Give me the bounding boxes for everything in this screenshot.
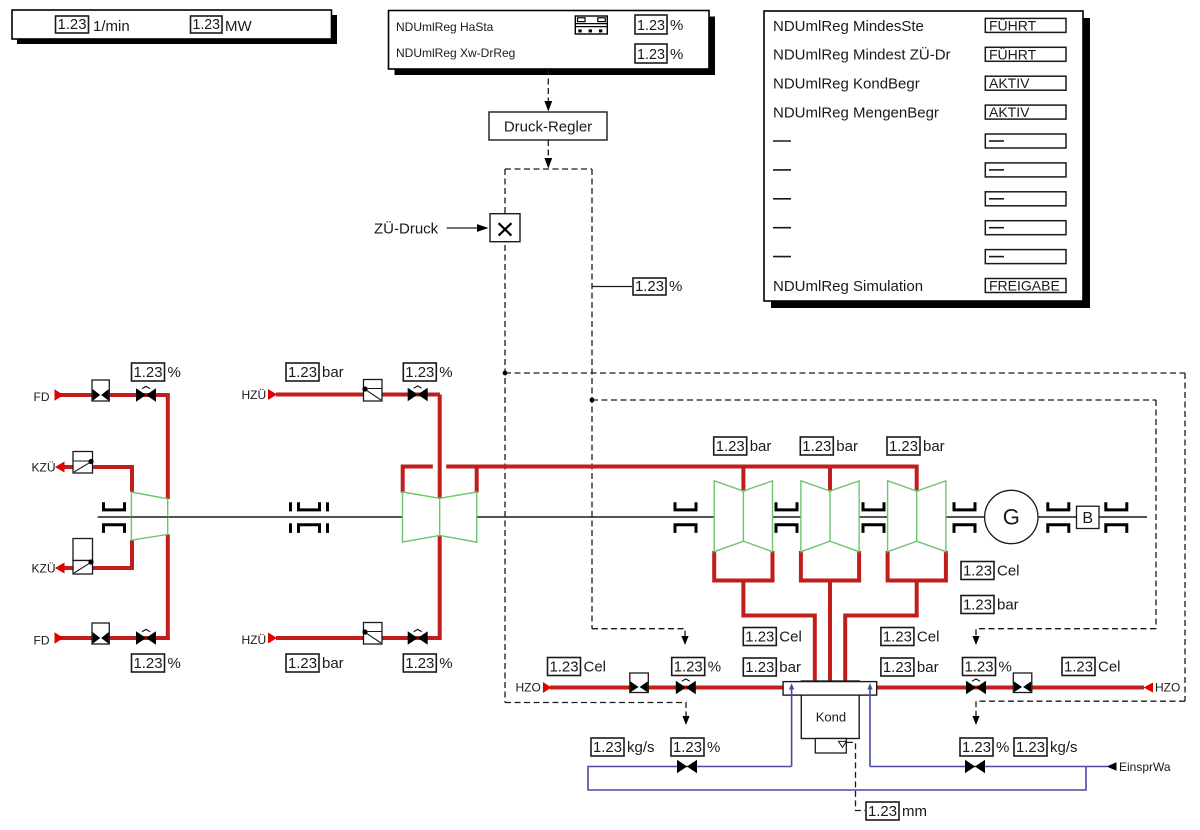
- svg-text:MW: MW: [225, 18, 252, 35]
- svg-text:AKTIV: AKTIV: [989, 104, 1030, 120]
- LP2 exhaust box: [801, 551, 859, 581]
- svg-text:1.23: 1.23: [1016, 739, 1045, 756]
- junction dot x592 y400: [590, 398, 595, 403]
- LP3 drain to condenser: [845, 581, 917, 682]
- bearing 3: [675, 502, 696, 533]
- svg-text:1.23: 1.23: [550, 659, 579, 676]
- svg-text:Cel: Cel: [584, 659, 607, 676]
- status panel: [764, 11, 1083, 301]
- value gen bar: [961, 596, 1019, 614]
- status row 7: [773, 192, 1066, 206]
- svg-text:1.23: 1.23: [635, 278, 664, 295]
- shaft line segments: [98, 516, 1147, 518]
- svg-text:AKTIV: AKTIV: [989, 75, 1030, 91]
- status row 6: [773, 163, 1066, 177]
- value HZU top bar: [286, 363, 344, 381]
- HZO arrow right: [1144, 683, 1154, 693]
- bearing 1: [104, 502, 125, 533]
- LP2 drain to condenser: [828, 581, 832, 682]
- svg-text:Kond: Kond: [816, 710, 846, 725]
- HZO boxed valve left: [630, 673, 649, 693]
- svg-text:FÜHRT: FÜHRT: [989, 45, 1037, 62]
- svg-text:1.23: 1.23: [883, 629, 912, 646]
- svg-text:KZÜ: KZÜ: [32, 461, 56, 475]
- inner dashed right vertical x=1156: [1155, 400, 1157, 629]
- value spray left kg/s: [591, 738, 655, 756]
- svg-text:NDUmlReg MengenBegr: NDUmlReg MengenBegr: [773, 105, 939, 122]
- svg-text:1.23: 1.23: [745, 659, 774, 676]
- HP turbine: [131, 492, 167, 540]
- KZU arrow top: [55, 462, 65, 473]
- svg-text:kg/s: kg/s: [627, 739, 655, 756]
- value HaSta %: [635, 15, 683, 34]
- HZU control valve bottom: [408, 629, 427, 644]
- svg-text:%: %: [996, 739, 1009, 756]
- FD arrow bottom: [55, 632, 64, 643]
- value HZO left %: [672, 658, 721, 676]
- spray arrow left: [789, 683, 794, 689]
- HZO line left: [550, 686, 784, 690]
- top-left status box: [12, 10, 332, 39]
- svg-text:1.23: 1.23: [58, 16, 87, 33]
- svg-text:Cel: Cel: [779, 629, 802, 646]
- svg-text:1.23: 1.23: [868, 803, 897, 820]
- crossover header main: [446, 467, 917, 492]
- svg-text:Cel: Cel: [1098, 659, 1121, 676]
- value MW: [191, 16, 223, 33]
- HZO line right: [876, 686, 1144, 690]
- signal: controller to Druck-Regler: [544, 69, 552, 112]
- svg-text:1.23: 1.23: [593, 739, 622, 756]
- svg-text:1.23: 1.23: [134, 655, 163, 672]
- svg-text:NDUmlReg Mindest ZÜ-Dr: NDUmlReg Mindest ZÜ-Dr: [773, 46, 951, 64]
- dashed bus right vertical x=592: [591, 169, 593, 629]
- dashed bus top edge: [505, 168, 592, 170]
- coupling tick left: [289, 502, 292, 533]
- svg-text:1.23: 1.23: [883, 659, 912, 676]
- svg-text:bar: bar: [923, 438, 945, 455]
- bearing 8: [1106, 502, 1127, 533]
- svg-text:Cel: Cel: [997, 563, 1020, 580]
- condenser body: [801, 681, 859, 739]
- tap to % label: [592, 286, 632, 288]
- HP shaft through: [131, 516, 167, 518]
- svg-text:1.23: 1.23: [802, 438, 831, 455]
- svg-text:1.23: 1.23: [637, 46, 665, 63]
- HZO bypass valve right: [966, 679, 985, 694]
- HZO bypass valve left: [676, 679, 695, 694]
- svg-text:HZÜ: HZÜ: [242, 388, 267, 402]
- svg-text:1.23: 1.23: [405, 364, 434, 381]
- value LP2 bar: [800, 437, 858, 455]
- KZU flap valve bottom: [73, 539, 94, 575]
- junction dot x505 y373: [503, 371, 508, 376]
- value tap %: [633, 278, 682, 295]
- value HZO far right Cel: [1062, 658, 1121, 676]
- HZU flap valve bottom: [362, 623, 382, 645]
- svg-text:FD: FD: [34, 634, 50, 648]
- value HZO right %: [963, 658, 1012, 676]
- value mm: [866, 802, 927, 820]
- svg-text:%: %: [708, 659, 721, 676]
- svg-text:1.23: 1.23: [962, 739, 991, 756]
- KZU flap valve top: [73, 452, 94, 474]
- spray valve right: [965, 760, 984, 772]
- LP1 turbine: [714, 481, 772, 552]
- crossover header left with IP drop: [403, 467, 433, 493]
- status panel shadow: [771, 18, 1090, 308]
- svg-text:bar: bar: [322, 655, 344, 672]
- HZU arrow top: [268, 389, 277, 400]
- HZU reheat line top: [276, 393, 440, 397]
- value spray right %: [960, 738, 1009, 756]
- status row 9: [773, 250, 1066, 264]
- EinsprWa arrow: [1107, 762, 1117, 770]
- svg-text:HZÜ: HZÜ: [242, 633, 267, 647]
- HZU arrow bottom: [268, 633, 277, 644]
- value LP3 bar: [887, 437, 945, 455]
- svg-text:NDUmlReg MindesSte: NDUmlReg MindesSte: [773, 18, 924, 35]
- LP3 exhaust box: [888, 551, 946, 581]
- exciter B box: [1077, 506, 1100, 528]
- main left vertical pipe upper: [166, 395, 170, 499]
- svg-text:1.23: 1.23: [288, 655, 317, 672]
- status row 3: [773, 75, 1066, 92]
- signal: Druck-Regler down: [544, 140, 552, 169]
- KZU extraction line top: [64, 467, 132, 492]
- svg-text:%: %: [670, 17, 683, 34]
- svg-text:NDUmlReg Xw-DrReg: NDUmlReg Xw-DrReg: [396, 46, 515, 60]
- inner dashed bottom left arrow: [592, 629, 689, 645]
- LP3 turbine: [888, 481, 946, 552]
- IP right drop: [475, 467, 479, 493]
- IP inlet vertical pipe: [438, 395, 442, 499]
- inner dashed bottom right arrow: [972, 629, 1156, 645]
- svg-text:%: %: [168, 655, 181, 672]
- FD stop valve bottom (boxed): [92, 623, 109, 644]
- FD control valve top: [136, 386, 155, 401]
- status row 5: [773, 134, 1066, 148]
- status row 4: [773, 104, 1066, 121]
- value gen Cel: [961, 562, 1020, 580]
- value HZU bottom %: [403, 654, 452, 672]
- svg-text:ZÜ-Druck: ZÜ-Druck: [374, 220, 439, 238]
- LP1 drain to condenser: [743, 581, 814, 682]
- svg-text:bar: bar: [322, 364, 344, 381]
- svg-text:NDUmlReg Simulation: NDUmlReg Simulation: [773, 278, 923, 295]
- svg-text:bar: bar: [997, 597, 1019, 614]
- svg-text:%: %: [168, 364, 181, 381]
- svg-text:HZO: HZO: [516, 681, 541, 695]
- svg-text:%: %: [999, 659, 1012, 676]
- status row 1: [773, 16, 1066, 34]
- status row 10: [773, 278, 1066, 295]
- value cond right Cel: [881, 628, 940, 646]
- condenser flange: [783, 682, 877, 696]
- faceplate icon: [575, 16, 607, 34]
- svg-text:bar: bar: [750, 438, 772, 455]
- status row 8: [773, 221, 1066, 235]
- spray line right riser: [869, 686, 871, 767]
- svg-text:kg/s: kg/s: [1050, 739, 1078, 756]
- spray manifold right: [870, 766, 1107, 768]
- svg-text:1.23: 1.23: [637, 17, 665, 34]
- value Xw-DrReg %: [635, 44, 683, 63]
- outer dashed right vertical x=1185: [1184, 373, 1186, 701]
- main left vertical pipe lower: [166, 534, 170, 640]
- svg-text:1.23: 1.23: [288, 364, 317, 381]
- svg-text:bar: bar: [917, 659, 939, 676]
- status row 2: [773, 45, 1066, 63]
- svg-text:G: G: [1003, 505, 1020, 530]
- svg-text:bar: bar: [836, 438, 858, 455]
- svg-text:B: B: [1082, 510, 1093, 527]
- FD supply line bottom: [60, 636, 170, 640]
- HZU flap valve top: [362, 380, 382, 402]
- Druck-Regler box: [489, 112, 607, 140]
- spray line left riser: [791, 686, 793, 767]
- svg-text:%: %: [439, 655, 452, 672]
- svg-text:NDUmlReg HaSta: NDUmlReg HaSta: [396, 20, 494, 34]
- svg-text:1.23: 1.23: [963, 597, 992, 614]
- value FD bottom %: [132, 654, 181, 672]
- svg-text:%: %: [670, 46, 683, 63]
- svg-text:1.23: 1.23: [716, 438, 745, 455]
- coupling tick right: [326, 502, 329, 533]
- value cond left bar: [743, 658, 801, 676]
- value 1/min: [56, 16, 89, 33]
- spray manifold left: [588, 767, 1086, 791]
- svg-text:1.23: 1.23: [134, 364, 163, 381]
- dashed line y=373 to right edge: [505, 372, 1185, 374]
- svg-text:KZÜ: KZÜ: [32, 562, 56, 576]
- generator G: [985, 490, 1038, 543]
- svg-text:HZO: HZO: [1155, 681, 1180, 695]
- value HZU top %: [403, 363, 452, 381]
- spray valve left: [677, 760, 696, 772]
- value FD top %: [132, 363, 181, 381]
- LP2 turbine: [801, 481, 859, 552]
- FD arrow top: [55, 389, 64, 400]
- svg-text:NDUmlReg KondBegr: NDUmlReg KondBegr: [773, 76, 920, 93]
- condenser hotwell: [815, 739, 846, 754]
- value HZU bottom bar: [286, 654, 344, 672]
- svg-text:1.23: 1.23: [963, 563, 992, 580]
- HZO arrow left: [543, 682, 552, 693]
- svg-text:Cel: Cel: [917, 629, 940, 646]
- value cond left Cel: [743, 628, 802, 646]
- svg-text:Druck-Regler: Druck-Regler: [504, 119, 592, 136]
- svg-text:FD: FD: [34, 390, 50, 404]
- HZU control valve top: [408, 386, 427, 401]
- LP1 inlet drop: [741, 467, 745, 492]
- IP outlet vertical pipe: [438, 535, 442, 640]
- svg-text:1.23: 1.23: [889, 438, 918, 455]
- bearing 6: [954, 502, 975, 533]
- IP turbine: [403, 492, 477, 542]
- spray arrow right: [867, 683, 872, 689]
- LP2 inlet drop: [828, 467, 832, 492]
- value spray left %: [671, 738, 720, 756]
- arrow ZU-Druck into multiplier: [447, 224, 489, 232]
- HZO boxed valve right: [1013, 673, 1032, 693]
- outer dashed bottom right segment: [972, 701, 1185, 725]
- svg-text:1.23: 1.23: [405, 655, 434, 672]
- svg-text:1.23: 1.23: [745, 629, 774, 646]
- svg-text:FREIGABE: FREIGABE: [989, 278, 1060, 294]
- value HZO far left Cel: [548, 658, 607, 676]
- svg-text:bar: bar: [779, 659, 801, 676]
- svg-text:mm: mm: [902, 803, 927, 820]
- HZU reheat line bottom: [276, 636, 440, 640]
- svg-text:%: %: [439, 364, 452, 381]
- dashed bus left vertical x=505: [504, 169, 506, 703]
- controller box: [389, 11, 710, 70]
- svg-text:%: %: [669, 278, 682, 295]
- KZU extraction line bottom: [64, 540, 132, 568]
- LP1 exhaust box: [714, 551, 772, 581]
- svg-text:1.23: 1.23: [1064, 659, 1093, 676]
- svg-text:1/min: 1/min: [93, 18, 130, 35]
- bearing 7: [1048, 502, 1069, 533]
- FD supply line top: [60, 393, 170, 397]
- value cond right bar: [881, 658, 939, 676]
- svg-text:1.23: 1.23: [674, 659, 703, 676]
- inner dashed top edge y=400: [592, 399, 1156, 401]
- bearing 4: [776, 502, 797, 533]
- svg-text:%: %: [707, 739, 720, 756]
- top-left status box shadow: [17, 15, 337, 44]
- FD control valve bottom: [136, 629, 155, 644]
- value LP1 bar: [714, 437, 772, 455]
- outer dashed bottom left segment: [505, 703, 690, 726]
- multiplier box X: [490, 214, 520, 242]
- svg-text:EinsprWa: EinsprWa: [1119, 760, 1171, 774]
- svg-text:1.23: 1.23: [193, 16, 221, 33]
- bearing 2: [299, 502, 320, 533]
- FD stop valve top (boxed): [92, 380, 109, 401]
- svg-text:FÜHRT: FÜHRT: [989, 16, 1037, 33]
- level signal dashed to mm label: [847, 742, 865, 810]
- KZU arrow bottom: [55, 563, 65, 574]
- controller box shadow: [395, 17, 716, 76]
- level indicator triangle: [839, 741, 847, 747]
- svg-text:1.23: 1.23: [965, 659, 994, 676]
- value spray right kg/s: [1014, 738, 1078, 756]
- svg-text:1.23: 1.23: [673, 739, 702, 756]
- bearing 5: [863, 502, 884, 533]
